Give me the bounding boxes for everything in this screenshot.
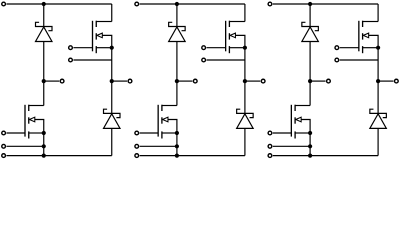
wire gate lead Q3 [207,47,226,49]
wire Q1 drain lead [111,4,113,22]
wire top rail [140,3,245,5]
node phase / D6 cathode [376,79,380,83]
wire Q6 source to bottom rail [309,133,311,156]
wire top rail [6,3,111,5]
terminal G4 (gate Q4) [135,131,139,135]
wire Kelvin source lead Q4 [140,145,177,147]
wire gate lead Q2 [6,132,25,134]
wire to phase terminal [245,80,260,82]
node bottom rail junction [42,154,46,158]
node Q6 source junction [308,131,312,135]
wire D5 cathode lead [309,4,311,27]
terminal D4 drain [193,79,197,83]
node bottom rail junction [175,154,179,158]
node phase / D2 cathode [110,79,114,83]
wire to phase terminal [112,80,127,82]
transistor Q4 (N-MOSFET) [158,105,177,139]
transistor Q2 (N-MOSFET) [25,105,44,139]
wire Kelvin source lead Q3 [207,59,245,61]
wire D2 cathode lead [111,81,113,113]
wire to phase terminal [378,80,393,82]
terminal S5 (Kelvin source Q5) [335,58,339,62]
wire D6 cathode lead [377,81,379,113]
wire D4 anode lead [244,128,246,155]
terminal N3 (source Q6) [268,154,272,158]
wire Q4 drain lead [176,81,178,105]
node Kelvin junction Q6 [308,144,312,148]
wire D5 anode lead [309,42,311,82]
node top rail / D5 cathode junction [308,2,312,6]
transistor Q3 (N-MOSFET) [226,21,245,54]
wire D1 anode lead [43,42,45,82]
diode D6 (Schottky) [370,109,387,128]
wire D4 cathode lead [244,81,246,113]
terminal S4 (Kelvin source Q4) [135,144,139,148]
terminal D2 drain [60,79,64,83]
terminal S1 (Kelvin source Q1) [69,58,73,62]
node Q2 source junction [42,131,46,135]
wire Kelvin source lead Q2 [6,145,43,147]
wire bottom rail [273,155,378,157]
wire Kelvin source lead Q5 [340,59,378,61]
wire Q5 source to phase node [377,48,379,81]
node Q1 source junction [110,46,114,50]
wire Q3 source to phase node [244,48,246,81]
wire Q6 drain lead [309,81,311,105]
terminal N2 (source Q4) [135,154,139,158]
wire bottom rail [140,155,245,157]
terminal P2 (drain Q3) [135,2,139,6]
wire D1 cathode lead [43,4,45,27]
wire Q5 drain lead [377,4,379,22]
wire D3 cathode lead [176,4,178,27]
terminal S3 (Kelvin source Q3) [202,58,206,62]
wire top rail [273,3,378,5]
terminal G5 (gate Q5) [335,46,339,50]
node top rail / D1 cathode junction [42,2,46,6]
node Kelvin junction Q2 [42,144,46,148]
transistor Q6 (N-MOSFET) [291,105,310,139]
diode D4 (Schottky) [237,109,254,128]
wire D2 anode lead [111,128,113,155]
node D3 anode / Q4 drain [175,79,179,83]
wire bottom rail [6,155,111,157]
terminal N1 (source Q2) [2,154,6,158]
wire Q2 drain lead [43,81,45,105]
node D1 anode / Q2 drain [42,79,46,83]
terminal S6 (Kelvin source Q6) [268,144,272,148]
terminal G2 (gate Q2) [2,131,6,135]
diode D1 (Schottky) [36,22,53,41]
wire D3 anode lead [176,42,178,82]
node Kelvin junction Q4 [175,144,179,148]
node Q5 source junction [376,46,380,50]
wire to drain terminal Q6 [310,80,325,82]
terminal G1 (gate Q1) [69,46,73,50]
diode D2 (Schottky) [104,109,121,128]
wire Kelvin source lead Q1 [73,59,111,61]
terminal D6 drain [327,79,331,83]
node top rail / D3 cathode junction [175,2,179,6]
wire to drain terminal Q4 [177,80,192,82]
transistor Q1 (N-MOSFET) [93,21,112,54]
terminal OUT1 (source Q1) [128,79,132,83]
diode D5 (Schottky) [302,22,319,41]
wire Q2 source to bottom rail [43,133,45,156]
terminal OUT2 (source Q3) [261,79,265,83]
wire to drain terminal Q2 [44,80,59,82]
transistor Q5 (N-MOSFET) [359,21,378,54]
terminal S2 (Kelvin source Q2) [2,144,6,148]
terminal G6 (gate Q6) [268,131,272,135]
wire Q4 source to bottom rail [176,133,178,156]
node Q3 source junction [243,46,247,50]
diode D3 (Schottky) [169,22,186,41]
node D5 anode / Q6 drain [308,79,312,83]
wire gate lead Q6 [273,132,292,134]
wire D6 anode lead [377,128,379,155]
terminal P1 (drain Q1) [2,2,6,6]
terminal P3 (drain Q5) [268,2,272,6]
wire gate lead Q5 [340,47,359,49]
wire Q3 drain lead [244,4,246,22]
node bottom rail junction [308,154,312,158]
wire Q1 source to phase node [111,48,113,81]
node Q4 source junction [175,131,179,135]
wire Kelvin source lead Q6 [273,145,310,147]
terminal G3 (gate Q3) [202,46,206,50]
terminal OUT3 (source Q5) [395,79,399,83]
wire gate lead Q4 [140,132,159,134]
wire gate lead Q1 [73,47,92,49]
node phase / D4 cathode [243,79,247,83]
